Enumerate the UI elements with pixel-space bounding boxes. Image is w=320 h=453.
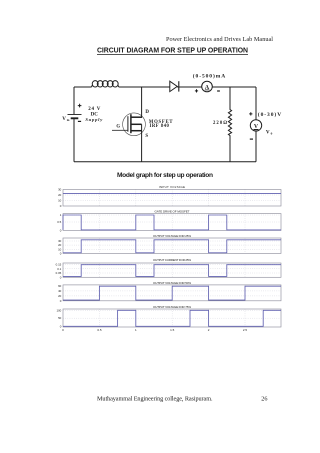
svg-text:OUTPUT VOLTAGE FOR 75%: OUTPUT VOLTAGE FOR 75% bbox=[153, 305, 191, 309]
wire right vertical (voltmeter branch) bbox=[255, 87, 257, 162]
svg-text:INPUT VOLTAGE: INPUT VOLTAGE bbox=[159, 185, 185, 189]
svg-text:Model graph for step up operat: Model graph for step up operation bbox=[117, 172, 213, 179]
svg-text:(0-500)mA: (0-500)mA bbox=[193, 72, 226, 79]
svg-text:100: 100 bbox=[56, 308, 61, 312]
footer text bbox=[97, 396, 267, 403]
page title bbox=[97, 48, 248, 55]
x axis tick labels bbox=[62, 328, 247, 332]
svg-text:(0-30)V: (0-30)V bbox=[258, 111, 281, 118]
page header text bbox=[166, 36, 273, 43]
svg-text:IRF 840: IRF 840 bbox=[150, 124, 170, 129]
svg-text:24 V: 24 V bbox=[88, 107, 100, 112]
svg-text:2.5: 2.5 bbox=[243, 328, 248, 332]
wire top rail left segment bbox=[74, 86, 92, 88]
svg-text:30: 30 bbox=[58, 188, 62, 192]
voltmeter V1 (0-30)V bbox=[250, 120, 261, 131]
svg-text:D: D bbox=[145, 110, 149, 115]
ammeter A1 (0-500)mA bbox=[202, 81, 213, 92]
MOSFET Q1 circle bbox=[123, 113, 146, 136]
wire bottom rail bbox=[74, 161, 256, 163]
svg-text:OUTPUT CURRENT FOR 25%: OUTPUT CURRENT FOR 25% bbox=[153, 258, 191, 262]
svg-text:2: 2 bbox=[208, 328, 210, 332]
svg-text:V: V bbox=[266, 129, 270, 135]
panel 5 output voltage 50% bbox=[58, 281, 281, 303]
svg-text:Muthayammal Engineering colleg: Muthayammal Engineering college, Rasipur… bbox=[97, 396, 213, 403]
wire ammeter to right corner bbox=[212, 86, 256, 88]
resistor R1 220 ohm bbox=[228, 87, 231, 162]
svg-text:10: 10 bbox=[58, 199, 62, 203]
panel 1 input voltage bbox=[58, 185, 281, 208]
voltmeter plus bbox=[249, 112, 252, 115]
diode D1 bbox=[170, 81, 179, 91]
svg-text:1: 1 bbox=[60, 213, 62, 217]
svg-text:0: 0 bbox=[60, 229, 62, 233]
svg-text:in: in bbox=[67, 118, 70, 122]
panel 2 gate drive bbox=[57, 209, 281, 232]
svg-text:0.5: 0.5 bbox=[57, 220, 61, 224]
label Vo bbox=[266, 129, 273, 135]
svg-text:0: 0 bbox=[60, 252, 62, 256]
battery minus sign bbox=[78, 120, 81, 122]
svg-text:40: 40 bbox=[58, 289, 62, 293]
svg-text:OUTPUT VOLTAGE FOR 50%: OUTPUT VOLTAGE FOR 50% bbox=[153, 281, 191, 285]
MOSFET drain segment + drain lead bbox=[132, 87, 142, 118]
MOSFET gate electrode bar bbox=[127, 116, 129, 132]
wire top rail middle segment bbox=[119, 86, 170, 88]
svg-text:60: 60 bbox=[58, 284, 62, 288]
inductor L1 bbox=[92, 81, 119, 87]
svg-text:0: 0 bbox=[271, 132, 273, 136]
label Vin bbox=[62, 117, 69, 122]
svg-text:0: 0 bbox=[60, 204, 62, 208]
svg-text:0: 0 bbox=[62, 328, 64, 332]
svg-text:0.5: 0.5 bbox=[97, 328, 102, 332]
MOSFET gate lead wire bbox=[112, 129, 128, 131]
MOSFET body segment bbox=[132, 123, 142, 125]
svg-text:26: 26 bbox=[261, 396, 267, 403]
svg-text:Supply: Supply bbox=[85, 117, 103, 122]
svg-text:G: G bbox=[116, 124, 120, 129]
battery source Vin 24V plates bbox=[68, 115, 82, 119]
wire diode to ammeter bbox=[177, 86, 202, 88]
svg-text:Power Electronics and Drives L: Power Electronics and Drives Lab Manual bbox=[166, 36, 273, 43]
panel 6 output voltage 75% bbox=[56, 305, 281, 329]
ammeter plus bbox=[195, 89, 198, 92]
MOSFET channel bar bbox=[130, 114, 132, 133]
svg-text:A: A bbox=[205, 85, 210, 91]
svg-text:220Ω: 220Ω bbox=[213, 121, 227, 126]
svg-text:1.5: 1.5 bbox=[170, 328, 175, 332]
svg-text:OUTPUT VOLTAGE FOR 25%: OUTPUT VOLTAGE FOR 25% bbox=[153, 234, 191, 238]
svg-text:0: 0 bbox=[60, 275, 62, 279]
svg-text:0: 0 bbox=[60, 299, 62, 303]
svg-text:0.15: 0.15 bbox=[56, 262, 62, 266]
svg-text:V: V bbox=[62, 117, 66, 122]
panel 3 output voltage 25% bbox=[58, 234, 281, 256]
svg-text:50: 50 bbox=[58, 316, 62, 320]
svg-text:20: 20 bbox=[58, 294, 62, 298]
svg-text:S: S bbox=[145, 134, 148, 139]
graph caption bbox=[117, 172, 213, 179]
svg-text:CIRCUIT DIAGRAM FOR STEP UP OP: CIRCUIT DIAGRAM FOR STEP UP OPERATION bbox=[97, 48, 248, 55]
MOSFET source segment + source lead bbox=[132, 124, 142, 162]
svg-text:GATE DRIVE OF MOSFET: GATE DRIVE OF MOSFET bbox=[155, 209, 190, 213]
ammeter minus bbox=[217, 90, 220, 92]
panel 4 output current 25% bbox=[56, 258, 281, 279]
voltmeter minus bbox=[250, 138, 253, 140]
svg-text:20: 20 bbox=[58, 193, 62, 197]
battery plus sign bbox=[78, 104, 82, 108]
svg-text:1: 1 bbox=[135, 328, 137, 332]
wire left vertical bbox=[73, 87, 75, 162]
